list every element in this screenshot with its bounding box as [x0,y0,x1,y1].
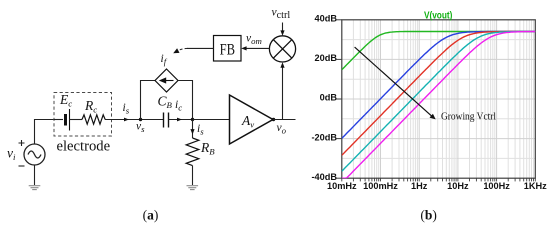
minor grid [342,20,536,178]
svg-text:Growing Vctrl: Growing Vctrl [441,112,496,123]
plus sign of vi [19,140,25,146]
node vs [139,118,142,121]
y-axis ticks [337,20,342,178]
wire multiplier to FB [243,47,270,49]
minus sign of vi [19,165,25,167]
current arrow is down [190,129,194,134]
capacitor CB [164,113,169,128]
wire node to amplifier [193,119,230,121]
svg-text:100Hz: 100Hz [483,181,510,191]
wire into battery [54,119,63,121]
trace red V(vout) fc=13.4Hz [342,32,536,156]
multiplier (circle with X) [269,36,295,62]
feedback loop wire left [141,81,156,120]
plot border [342,20,536,178]
branch wire to RB [192,120,194,139]
ground under RB [187,186,199,190]
y-axis labels [311,14,337,182]
svg-text:0dB: 0dB [320,93,338,103]
trace cyan V(vout) fc=33.8Hz [342,32,536,172]
op-amp Av [230,95,274,144]
current arrow is [124,118,129,122]
svg-text:10Hz: 10Hz [447,181,469,191]
wire vctrl to multiplier [282,23,284,34]
wire cap to node [169,119,193,121]
resistor Rc [82,115,105,124]
svg-text:1KHz: 1KHz [524,181,547,191]
trace green V(vout) fc=0.0925Hz [342,32,536,70]
arrow into multiplier top [280,30,284,35]
wire battery to resistor [70,119,83,121]
wire RB to ground [192,166,194,185]
arrow into multiplier bottom [280,62,284,67]
FB box [214,36,242,62]
x-axis ticks [342,178,536,181]
trace magenta V(vout) fc=67Hz [342,32,536,179]
wire source top to main wire [35,120,55,145]
svg-text:20dB: 20dB [315,53,338,63]
node vo [272,118,275,121]
battery Ec [66,109,70,131]
svg-text:(a): (a) [143,208,159,223]
plot frame [0,0,1,1]
svg-text:V(vout): V(vout) [424,10,453,21]
dashed control arrow to if [173,48,187,53]
resistor RB [186,138,199,166]
voltage source vi [24,144,45,165]
wire vo to multiplier [282,64,284,120]
node after CB [191,118,194,121]
wire source bottom to ground [34,165,36,185]
svg-text:100mHz: 100mHz [363,181,398,191]
current arrow ic [177,118,182,122]
trace blue V(vout) fc=5.0Hz [342,32,536,139]
svg-text:40dB: 40dB [315,14,338,24]
svg-text:10mHz: 10mHz [327,181,357,191]
dependent source diamond if [155,69,178,92]
ground under source [29,186,41,190]
svg-text:-20dB: -20dB [311,132,337,142]
feedback loop wire right [178,81,193,119]
x-axis labels [327,181,547,191]
svg-text:1Hz: 1Hz [411,181,428,191]
electrode dashed box [54,93,112,137]
major grid [342,20,536,178]
annotation arrow Growing Vctrl [355,47,436,119]
svg-text:-40dB: -40dB [311,172,337,182]
wire output [273,119,296,121]
svg-text:electrode: electrode [57,139,111,155]
wire FB to dashed arrow [187,47,214,49]
svg-text:(b): (b) [420,208,437,223]
wire resistor to node vs [105,119,163,121]
arrow into FB box [241,46,246,50]
svg-text:FB: FB [220,41,235,58]
